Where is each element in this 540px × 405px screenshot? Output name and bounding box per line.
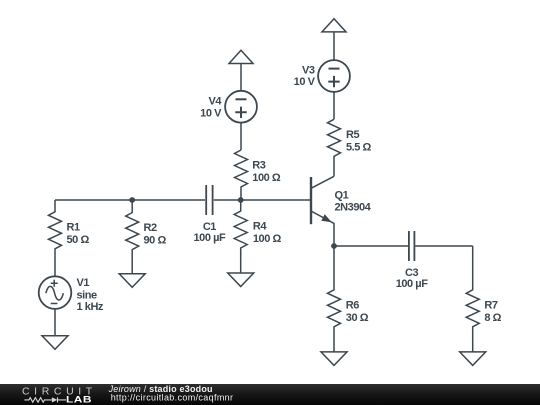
svg-text:R6: R6	[346, 299, 359, 311]
resistor R6	[328, 246, 369, 352]
capacitor C1	[194, 185, 226, 244]
svg-text:V4: V4	[208, 96, 222, 108]
wire C1 to Q1 base	[214, 199, 310, 201]
resistor R2	[126, 200, 167, 274]
svg-text:100 µF: 100 µF	[194, 232, 226, 244]
footer title	[108, 384, 213, 394]
ground below R6	[321, 352, 347, 366]
svg-text:R5: R5	[346, 129, 359, 141]
svg-text:10 V: 10 V	[294, 76, 316, 88]
wire emitter node to C3	[334, 245, 408, 247]
ground below R7	[460, 352, 486, 366]
svg-text:90 Ω: 90 Ω	[144, 235, 167, 247]
resistor R4	[234, 200, 281, 273]
transistor Q1 2N3904	[311, 176, 372, 246]
footer bar	[0, 384, 540, 405]
svg-text:Q1: Q1	[335, 190, 349, 202]
wire arrow to V3	[333, 32, 335, 60]
svg-text:30 Ω: 30 Ω	[346, 312, 369, 324]
svg-text:100 µF: 100 µF	[396, 278, 428, 290]
source V3	[294, 60, 350, 92]
wire C3 to R7	[415, 245, 472, 247]
svg-text:R1: R1	[67, 221, 80, 233]
ground below R4	[228, 273, 254, 287]
capacitor C3	[396, 231, 428, 290]
resistor R3	[235, 150, 281, 200]
svg-text:LAB: LAB	[66, 395, 92, 405]
logo CIRCUIT	[22, 386, 97, 398]
power flag above V4	[229, 50, 253, 63]
svg-text:100 Ω: 100 Ω	[253, 233, 282, 245]
node junction emitter/R6/C3	[331, 243, 337, 249]
node junction R2/top wire	[129, 197, 135, 203]
svg-text:R4: R4	[253, 221, 267, 233]
source V4	[200, 91, 257, 123]
ground below R2	[119, 274, 145, 288]
wire arrow to V4	[240, 64, 242, 91]
wire V1 to ground	[54, 309, 56, 336]
resistor R1	[49, 200, 90, 277]
logo resistor-diode glyph	[24, 397, 66, 402]
svg-text:R7: R7	[484, 299, 497, 311]
svg-text:V3: V3	[302, 64, 315, 76]
svg-text:100 Ω: 100 Ω	[252, 172, 281, 184]
svg-text:sine: sine	[77, 289, 98, 301]
svg-text:R2: R2	[144, 222, 157, 234]
wire main horizontal left (R1 top to C1)	[55, 199, 205, 201]
ground below V1	[42, 336, 68, 350]
svg-text:8 Ω: 8 Ω	[484, 312, 501, 324]
svg-text:http://circuitlab.com/caqfmnr: http://circuitlab.com/caqfmnr	[111, 393, 234, 403]
power flag above V3	[322, 19, 346, 32]
svg-text:1 kHz: 1 kHz	[77, 301, 104, 313]
svg-text:5.5 Ω: 5.5 Ω	[346, 141, 372, 153]
footer url	[111, 393, 234, 403]
svg-text:R3: R3	[252, 160, 265, 172]
resistor R5	[328, 119, 372, 176]
svg-text:10 V: 10 V	[200, 107, 222, 119]
wire V3 to R5	[333, 92, 335, 119]
svg-text:50 Ω: 50 Ω	[67, 234, 90, 246]
svg-text:V1: V1	[77, 277, 90, 289]
wire V4 to R3	[240, 123, 242, 150]
resistor R7	[466, 246, 501, 352]
source V1 sine	[39, 276, 104, 313]
svg-text:2N3904: 2N3904	[335, 201, 372, 213]
node junction R3/R4	[238, 197, 244, 203]
logo LAB	[66, 395, 92, 405]
